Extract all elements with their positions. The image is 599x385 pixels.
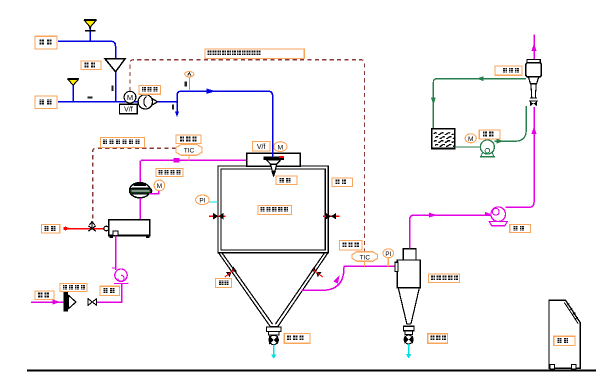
valve label box [100, 286, 120, 295]
pipe: riser to dryer top [177, 91, 273, 157]
water pump label box [479, 130, 500, 139]
chamber inside label box [258, 205, 292, 214]
feeder label box [60, 283, 87, 291]
svg-text:M: M [127, 93, 133, 102]
cabinet label box [554, 336, 575, 345]
atomizer [264, 156, 284, 177]
water tank [432, 129, 455, 149]
pipe: feed inlet with arrow [31, 301, 64, 303]
svg-text:TIC: TIC [184, 148, 195, 155]
right wall valve [323, 215, 340, 217]
pipe: cyclone outlet to fan [410, 215, 491, 249]
cyclone discharge collar [403, 326, 414, 331]
pipe: heater to feed pump [115, 236, 117, 271]
flow arrow on riser [207, 89, 216, 94]
tank water waves [434, 133, 441, 135]
pipe: down to exchanger [139, 160, 141, 183]
pipe: cone to cyclone [302, 266, 397, 290]
pipe: pump suction from feeder [97, 283, 122, 302]
product label box (cyclone) [428, 334, 448, 344]
riser segment into atomizer [272, 140, 274, 157]
cone left valve [223, 267, 237, 280]
atomizer label box [276, 176, 297, 184]
atomizer V/f box [252, 142, 270, 152]
thermometer bubble on riser [189, 77, 191, 91]
svg-text:V/f: V/f [124, 105, 133, 114]
atomizer motor M [274, 142, 287, 152]
pressure indicator PI [209, 201, 218, 203]
product out arrow (dryer) [273, 345, 275, 355]
signal line: exhaust TIC to blower V/f [130, 60, 365, 252]
pipe: main air line [58, 101, 177, 103]
product label box (dryer) [284, 334, 310, 344]
discharge collar [267, 327, 281, 331]
discharge valve [269, 335, 278, 344]
TIC label box [176, 135, 201, 144]
pipe: tank to water pump [455, 146, 481, 148]
air intake label box 1 [35, 36, 57, 49]
fan label box [510, 224, 531, 232]
pipe: scrubber to water tank [433, 79, 526, 129]
chamber label box [332, 178, 353, 187]
ground line [27, 370, 596, 372]
air inlet label box 2 [35, 96, 57, 108]
stack outlet pipe with arrow [533, 35, 535, 60]
heater box E1 [109, 220, 150, 236]
silencer / wet scrubber unit [526, 60, 541, 107]
blower B1 [138, 95, 157, 109]
cyclone separator [395, 249, 420, 324]
dryer chamber (double wall) [218, 166, 328, 253]
vent filter V1 (yellow) [84, 20, 97, 42]
svg-text:PI: PI [385, 251, 391, 258]
svg-text:M: M [277, 144, 283, 151]
pipe: feed line to atomizer [141, 159, 247, 161]
exchanger motor M [149, 191, 159, 194]
heater control label box [100, 137, 144, 147]
power label box [41, 225, 59, 233]
control cabinet [549, 300, 580, 368]
heat exchanger / rotary pump [129, 182, 152, 198]
pipe: pump to scrubber [494, 106, 526, 141]
valve on feed line [88, 299, 97, 306]
svg-text:PI: PI [199, 197, 205, 204]
dryer cone (double wall) [218, 253, 328, 327]
drain stub with arrow [176, 102, 178, 113]
exchanger label box [156, 169, 183, 177]
svg-text:TIC: TIC [360, 254, 371, 261]
size note on main line [88, 96, 93, 98]
cyclone label box [429, 274, 460, 283]
V/f box (blower drive) [120, 104, 138, 113]
control description label box [205, 49, 304, 59]
pipe: upper air inlet line [58, 41, 116, 58]
terminal circle at heater [104, 226, 109, 231]
feed inlet label box [35, 291, 54, 300]
sight glass label box [216, 279, 232, 288]
water pump P2 [480, 140, 495, 157]
signal line: feed TIC to heater contactor [93, 148, 176, 221]
feeder (screw feeder) [64, 292, 76, 312]
exhaust TIC [364, 261, 366, 266]
motor M1 circle [124, 91, 136, 103]
filter label box [81, 61, 101, 70]
exhaust fan F2 [489, 207, 507, 226]
inline element (flow sensor) [174, 158, 180, 163]
exhaust PI [387, 258, 389, 267]
air filter F1 (triangle) [105, 59, 126, 72]
water pump motor M [465, 134, 476, 143]
pipe: fan to stack [505, 107, 534, 207]
left wall valve [209, 215, 226, 217]
svg-text:V/f: V/f [257, 144, 266, 151]
vent filter V2 (yellow) [68, 79, 79, 102]
dryer top box [247, 153, 300, 166]
cone right valve [311, 267, 325, 280]
pipe: exchanger to heater box [139, 198, 141, 220]
power line (red) [64, 228, 105, 230]
size note [112, 86, 114, 92]
exhaust temp label box [340, 241, 363, 250]
product out arrow (cyclone) [408, 344, 410, 354]
svg-text:M: M [157, 183, 163, 190]
cyclone discharge valve [404, 335, 413, 344]
feed pump P1 [114, 269, 129, 283]
contactor (controlled switch) [88, 222, 95, 232]
blower label box [139, 86, 161, 95]
svg-text:M: M [468, 136, 474, 143]
instrument TIC (feed temperature) [188, 155, 190, 160]
silencer label box [495, 66, 522, 75]
